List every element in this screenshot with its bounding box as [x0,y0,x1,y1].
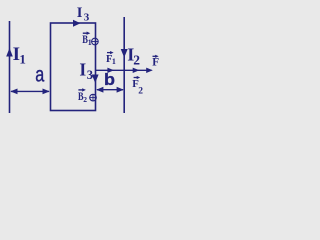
wire I1 (left vertical wire) [9,21,11,113]
B2 into-page symbol [90,94,97,101]
svg-text:I: I [79,60,86,80]
dimension b double arrow [97,89,123,91]
B1 into-page symbol [92,38,99,45]
svg-text:2: 2 [138,86,143,96]
svg-text:1: 1 [88,38,92,47]
arrowhead F2 [133,68,140,73]
svg-text:2: 2 [83,95,87,104]
svg-text:a: a [35,64,44,87]
arrowhead I3 right edge down [92,75,99,84]
svg-text:3: 3 [87,68,93,82]
arrowhead I2 current down [121,49,128,58]
dimension a double arrow [11,90,49,92]
svg-text:1: 1 [112,57,116,66]
label B2 vector [78,89,83,91]
label B1 vector [83,32,88,34]
svg-text:3: 3 [84,12,90,24]
svg-text:2: 2 [133,52,140,67]
arrowhead I1 current up [6,48,13,57]
svg-text:I: I [77,5,83,21]
arrowhead F [146,68,153,73]
wire I2 (right vertical wire) [123,17,125,113]
label F vector [153,55,157,57]
arrowhead I3 top edge [73,20,81,27]
force axis line [96,69,152,71]
label F2 vector [134,77,138,79]
label F1 vector [107,52,111,54]
loop (rectangle I3) [51,23,96,111]
svg-text:1: 1 [19,51,26,66]
arrowhead F1 [107,68,114,73]
svg-text:F: F [152,56,159,68]
svg-text:b: b [104,71,115,89]
